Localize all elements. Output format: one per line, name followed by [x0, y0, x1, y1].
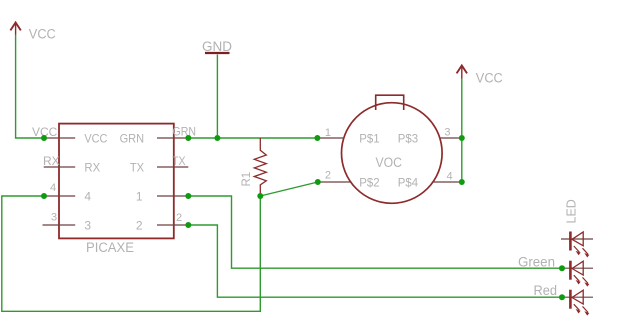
pin RX (PICAXE left 2) [44, 166, 75, 168]
junction at VOC P$4 / VCC [459, 179, 465, 185]
wire GRN net: PICAXE GRN pin to VOC P$1 [188, 137, 317, 139]
svg-text:RX: RX [84, 161, 100, 175]
wire PICAXE pin1 to Green LED [188, 196, 562, 268]
svg-text:R1: R1 [241, 172, 253, 187]
pin P$3 stub [439, 137, 462, 139]
ic U1 PICAXE body [59, 124, 174, 239]
svg-text:3: 3 [444, 127, 450, 139]
pin P$4 stub [433, 181, 462, 183]
svg-text:TX: TX [130, 161, 144, 175]
svg-text:3: 3 [84, 219, 91, 233]
junction at Red LED [559, 294, 565, 300]
junction at R1 bottom [257, 193, 263, 199]
svg-text:TX: TX [172, 154, 186, 168]
svg-text:1: 1 [136, 190, 143, 204]
svg-text:2: 2 [325, 170, 331, 182]
svg-text:VCC: VCC [84, 132, 107, 146]
pin TX (PICAXE right 2) [157, 166, 188, 168]
power symbol VCC (right) [457, 66, 467, 79]
svg-text:GRN: GRN [120, 132, 145, 146]
junction at PICAXE VCC pin [41, 135, 47, 141]
svg-text:PICAXE: PICAXE [86, 240, 134, 255]
power symbol VCC (left) [10, 23, 20, 35]
led D2 Green [561, 261, 593, 286]
svg-text:3: 3 [51, 212, 57, 224]
pin GRN (PICAXE right 1) [157, 137, 188, 139]
junction GND on GRN net [214, 135, 220, 141]
junction at PICAXE pin 4 [41, 193, 47, 199]
svg-text:4: 4 [447, 171, 453, 183]
wire bottom loop: R1 bottom to PICAXE pin 4 [2, 196, 261, 311]
wire PICAXE pin2 to Red LED [188, 225, 562, 297]
wire VCC net: left arrow down to PICAXE VCC pin [16, 35, 44, 139]
wire diagonal: R1 bottom to VOC P$2 [260, 182, 318, 196]
junction at VOC P$1 [314, 135, 320, 141]
svg-text:1: 1 [325, 127, 331, 139]
svg-text:Red: Red [534, 283, 558, 298]
svg-text:2: 2 [136, 219, 143, 233]
svg-text:GND: GND [202, 39, 232, 54]
connector VOC body circle [342, 103, 443, 204]
pin P$2 stub [318, 181, 351, 183]
junction at Green LED [559, 265, 565, 271]
pin P$1 stub [317, 137, 344, 139]
svg-text:4: 4 [50, 182, 56, 194]
svg-text:P$4: P$4 [398, 176, 419, 190]
junction at VOC P$2 [315, 179, 321, 185]
svg-text:VCC: VCC [29, 27, 56, 42]
svg-text:4: 4 [84, 190, 91, 204]
svg-text:VCC: VCC [476, 71, 503, 86]
svg-text:P$3: P$3 [398, 132, 419, 146]
ground symbol GND [205, 52, 230, 54]
svg-text:P$1: P$1 [359, 132, 380, 146]
led D1 (top) [561, 232, 593, 257]
junction at PICAXE pin 2 [185, 222, 191, 228]
svg-text:VOC: VOC [376, 155, 403, 170]
svg-text:P$2: P$2 [359, 176, 380, 190]
pin 1 (PICAXE right 3) [157, 195, 188, 197]
pin VCC (PICAXE left 1) [44, 137, 75, 139]
pin 2 (PICAXE right 4) [157, 224, 188, 226]
svg-text:LED: LED [565, 199, 579, 223]
connector VOC top tab [376, 95, 404, 110]
led D3 Red [561, 290, 593, 315]
pin 3 (PICAXE left 4) [43, 224, 76, 226]
pin 4 (PICAXE left 3) [44, 195, 75, 197]
wire right VCC vertical [461, 79, 463, 183]
junction at VOC P$3 / VCC [459, 135, 465, 141]
resistor R1 [254, 138, 266, 196]
svg-text:GRN: GRN [173, 125, 197, 139]
svg-text:Green: Green [518, 255, 555, 270]
wire GND vertical to GRN net [216, 55, 218, 139]
svg-text:RX: RX [43, 154, 60, 168]
junction at PICAXE GRN pin [185, 135, 191, 141]
svg-text:2: 2 [176, 212, 182, 224]
junction at PICAXE pin 1 [185, 193, 191, 199]
